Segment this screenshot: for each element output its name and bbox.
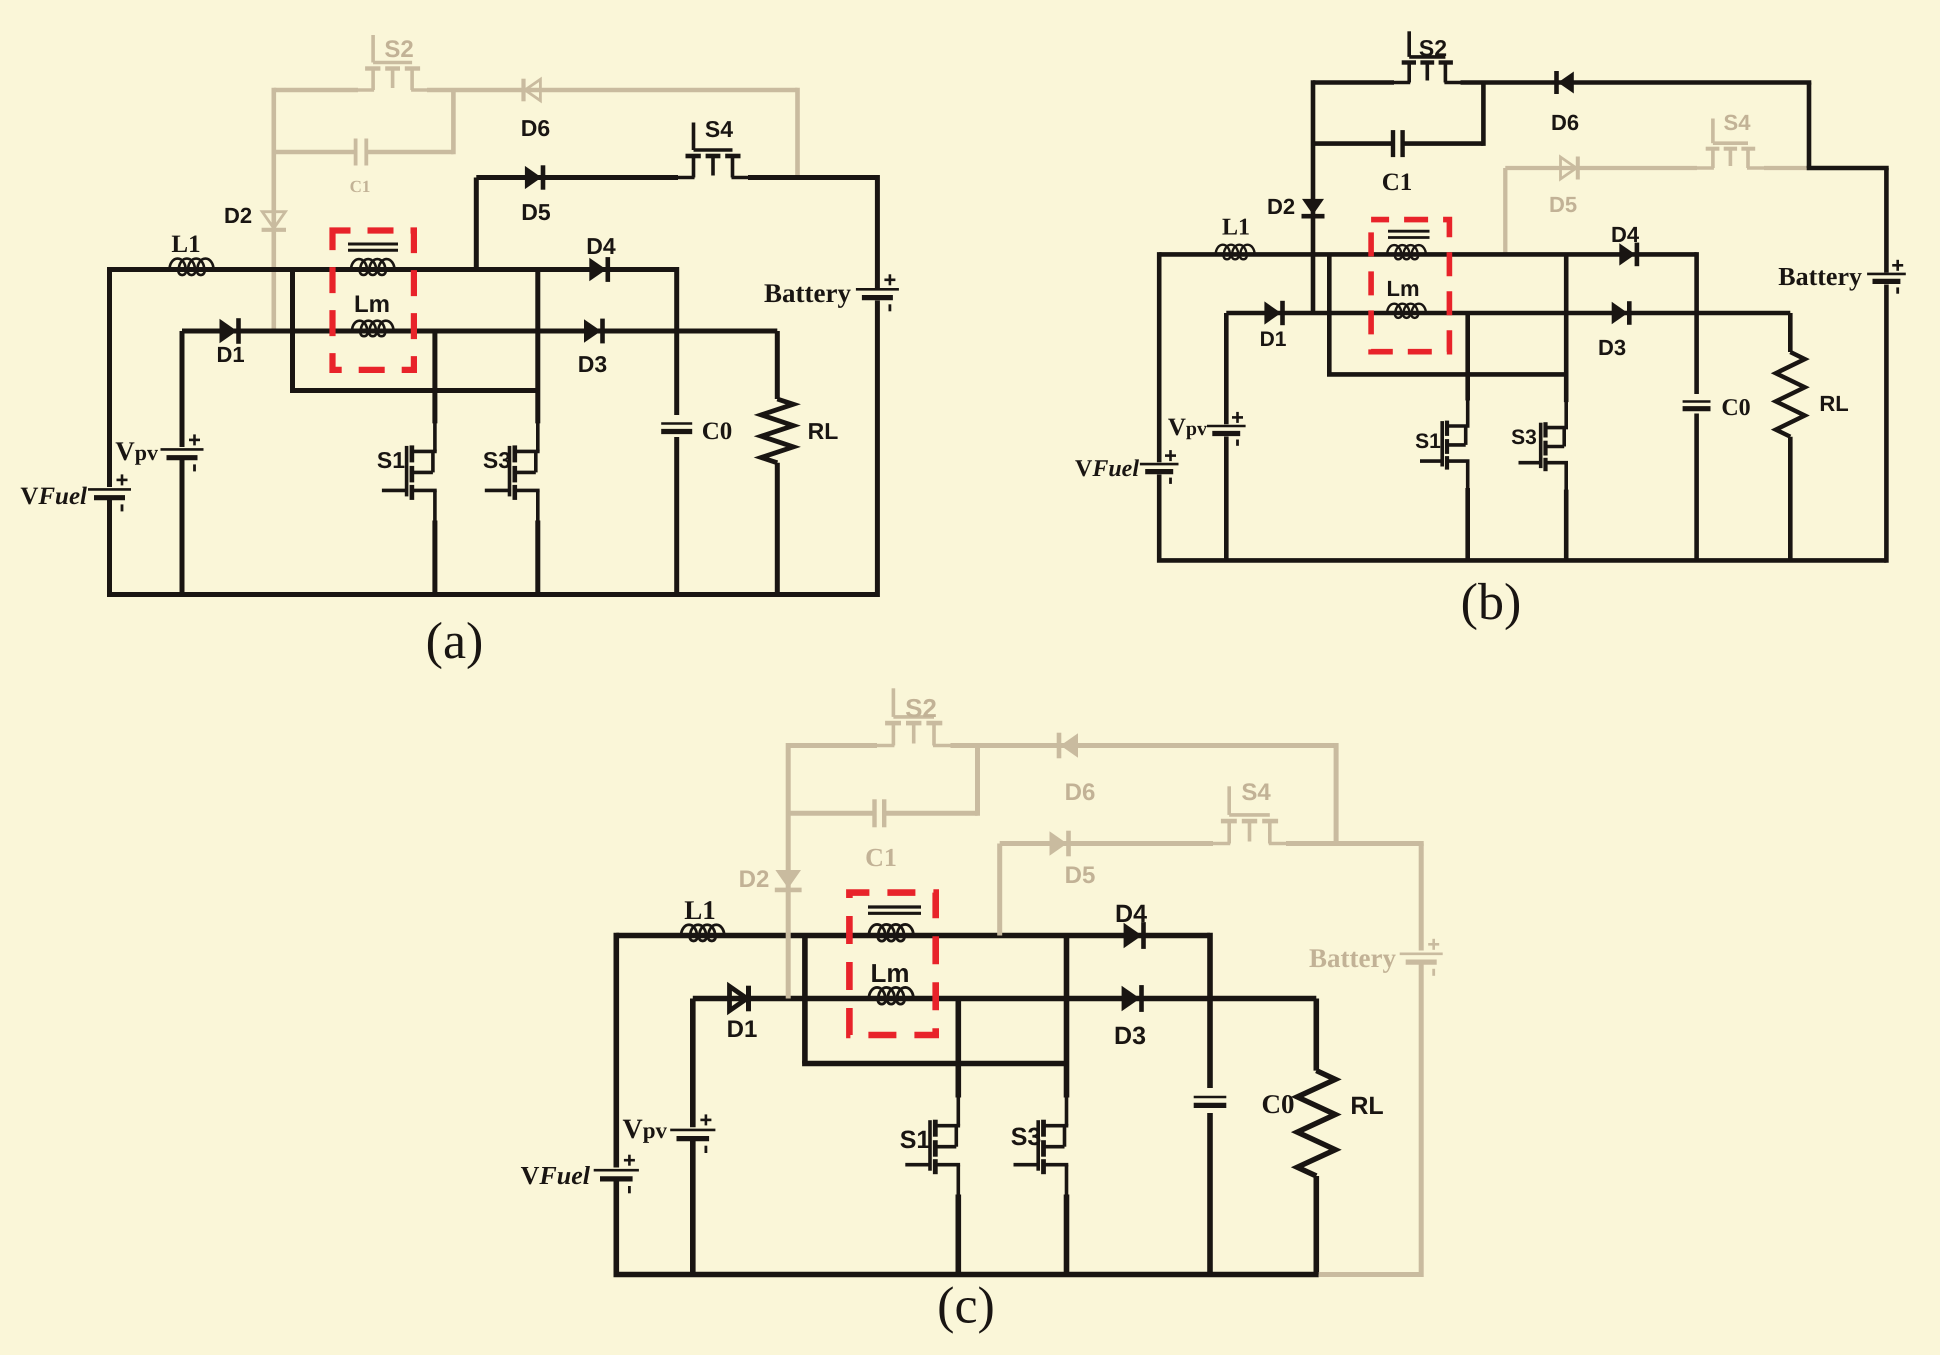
diode D1 (a)	[220, 319, 238, 343]
svg-text:D5: D5	[521, 199, 551, 225]
transistor S1 (a)	[410, 445, 415, 462]
transistor S2 (b)	[1407, 31, 1411, 57]
svg-text:C1: C1	[1382, 169, 1413, 196]
diode D1 (c)	[730, 986, 748, 1010]
diode D1 (b)	[1264, 301, 1281, 324]
transistor S3 (c)	[1041, 1120, 1046, 1137]
wire: S3 drain vertical (c)	[1064, 936, 1070, 1098]
inductor Lm secondary (c)	[869, 987, 913, 1004]
wire: gray left vertical through D2 (a)	[271, 88, 276, 331]
wire: S1 source vertical (c)	[955, 1195, 961, 1275]
svg-text:S2: S2	[905, 693, 937, 723]
svg-text:L1: L1	[1222, 215, 1250, 241]
transistor S4 (c)	[1227, 786, 1231, 815]
battery Battery (c)	[1400, 952, 1443, 955]
diode D6 (a)	[525, 79, 540, 100]
inductor Lm secondary (a)	[352, 321, 394, 337]
svg-text:C1: C1	[350, 177, 371, 196]
wire: S1 source vertical (b)	[1465, 488, 1470, 560]
svg-text:D1: D1	[216, 342, 244, 367]
wire: Vpv branch (b)	[1224, 313, 1229, 424]
transistor S3 (b)	[1543, 422, 1547, 437]
wire: top main rail with L1 (a)	[110, 267, 677, 272]
inductor Lm primary (c)	[869, 924, 913, 941]
diode D5 (a)	[525, 166, 542, 189]
svg-text:L1: L1	[171, 231, 200, 258]
wire: left rail lower + bottom rail (c)	[616, 1182, 1318, 1275]
wire: top main rail with L1 (b)	[1159, 252, 1696, 257]
wire: S3 drain vertical (b)	[1564, 254, 1569, 402]
wire: gray C1 right vertical (c)	[975, 746, 980, 816]
wire: gray C1 branch (c)	[788, 811, 874, 816]
svg-text:D5: D5	[1065, 862, 1096, 889]
svg-text:Lm: Lm	[871, 958, 910, 988]
svg-text:S3: S3	[1511, 426, 1537, 449]
svg-text:C0: C0	[1721, 395, 1750, 421]
battery Battery (b)	[1867, 273, 1906, 276]
svg-text:D4: D4	[1115, 900, 1147, 928]
wire: left rail upper (a)	[107, 267, 112, 487]
svg-text:S4: S4	[705, 116, 733, 142]
wire: S1 drain vertical (b)	[1465, 313, 1470, 401]
wire: gray right drop to S4 row (a)	[795, 88, 800, 178]
wire: C0 branch vertical (a)	[674, 267, 679, 415]
resistor RL (b)	[1776, 352, 1805, 437]
wire: Vpv branch lower (a)	[180, 460, 185, 595]
svg-text:C1: C1	[865, 843, 897, 872]
wire: C1 branch (b)	[1313, 141, 1393, 146]
wire: Lm loop bottom (a)	[290, 388, 538, 393]
wire: C0 branch vertical (b)	[1694, 252, 1699, 394]
svg-text:D6: D6	[1551, 110, 1579, 135]
svg-text:L1: L1	[684, 895, 716, 925]
wire: gray S2 top rail (a)	[274, 88, 358, 93]
inductor Lm secondary (b)	[1387, 304, 1426, 318]
diode D2 (b)	[1302, 199, 1324, 215]
wire: S3 source vertical (c)	[1064, 1195, 1070, 1275]
wire: Vpv branch (c)	[690, 999, 696, 1128]
svg-text:Vpv: Vpv	[622, 1114, 667, 1145]
capacitor C1 (a)	[354, 139, 358, 166]
battery Vpv (c)	[670, 1129, 715, 1132]
svg-text:D4: D4	[586, 233, 616, 259]
wire: Lm loop bottom (c)	[802, 1061, 1066, 1067]
svg-text:D1: D1	[727, 1016, 758, 1043]
capacitor C0 (a)	[661, 422, 692, 425]
battery Battery (a)	[856, 288, 899, 291]
wire: RL branch vertical (b)	[1788, 313, 1793, 352]
transistor S3 (a)	[512, 445, 517, 462]
svg-text:VFuel: VFuel	[20, 483, 87, 510]
wire: Lm loop left vertical (b)	[1327, 254, 1332, 374]
capacitor C1 (b)	[1391, 130, 1395, 157]
wire: S3 source vertical (b)	[1564, 490, 1569, 561]
wire: gray C1 branch (a)	[274, 150, 356, 155]
capacitor C1 (c)	[872, 799, 876, 827]
transformer core (c)	[868, 905, 921, 908]
svg-text:VFuel: VFuel	[1075, 456, 1139, 482]
svg-text:D5: D5	[1549, 192, 1577, 217]
svg-text:(c): (c)	[937, 1278, 995, 1335]
svg-text:S1: S1	[377, 447, 405, 473]
wire: battery branch vertical (b)	[1884, 168, 1889, 273]
battery Vpv (a)	[161, 448, 204, 451]
diode D5 (c)	[1050, 831, 1068, 855]
diode D2 (a)	[262, 212, 285, 229]
svg-text:Battery: Battery	[1778, 262, 1862, 291]
capacitor C0 (c)	[1194, 1096, 1227, 1099]
svg-text:RL: RL	[808, 418, 839, 444]
wire: D5/S4 row (a)	[476, 175, 678, 180]
battery VFuel (a)	[88, 488, 131, 491]
svg-text:S1: S1	[900, 1126, 931, 1154]
svg-text:(b): (b)	[1461, 574, 1522, 631]
wire: S3 drain vertical (a)	[535, 270, 540, 424]
transistor S2 (a)	[371, 35, 375, 63]
wire: gray S2 top rail (c)	[788, 743, 877, 748]
wire: S1 drain vertical (a)	[432, 331, 437, 423]
diode D4 (b)	[1619, 243, 1635, 265]
wire: D1/D3 row (c)	[693, 996, 1317, 1002]
svg-text:S3: S3	[483, 447, 511, 473]
wire: S3 source vertical (a)	[535, 521, 540, 595]
svg-text:D2: D2	[224, 203, 252, 228]
svg-text:D4: D4	[1611, 222, 1640, 247]
svg-text:Vpv: Vpv	[115, 436, 158, 466]
wire: C1 right vertical (b)	[1481, 83, 1486, 146]
wire: D2 branch vertical (b)	[1311, 80, 1316, 313]
diode D3 (b)	[1612, 302, 1628, 324]
svg-text:Battery: Battery	[764, 278, 851, 308]
diode D5 (b)	[1561, 157, 1577, 179]
inductor Lm primary (a)	[351, 259, 395, 275]
wire: top-right corner drop (b)	[1807, 83, 1812, 169]
wire: left rail upper (b)	[1157, 252, 1162, 462]
wire: S1 drain vertical (c)	[955, 999, 961, 1098]
wire: RL branch vertical (a)	[775, 331, 780, 399]
diode D2 (c)	[775, 870, 801, 888]
svg-text:C0: C0	[702, 418, 733, 445]
svg-text:Battery: Battery	[1309, 943, 1396, 973]
inductor L1 (b)	[1216, 245, 1255, 260]
wire: Lm loop left vertical (a)	[290, 270, 295, 391]
svg-text:Lm: Lm	[354, 291, 390, 318]
wire: top main rail with L1 (c)	[616, 933, 1210, 939]
transistor S1 (c)	[933, 1120, 938, 1137]
transistor S4 (a)	[692, 123, 696, 151]
capacitor C0 (b)	[1683, 400, 1711, 403]
wire: gray S4 row (c)	[1000, 841, 1213, 846]
svg-text:RL: RL	[1819, 391, 1848, 416]
wire: RL branch vertical (c)	[1314, 999, 1320, 1071]
svg-text:D6: D6	[521, 115, 550, 141]
diode D4 (a)	[589, 258, 606, 282]
wire: Vpv branch upper (a)	[180, 331, 185, 447]
transistor S2 (c)	[892, 688, 896, 717]
resistor RL (a)	[761, 399, 793, 463]
svg-text:D1: D1	[1260, 328, 1287, 351]
svg-text:VFuel: VFuel	[521, 1161, 591, 1190]
wire: D1/D3 row (b)	[1226, 311, 1790, 316]
inductor L1 (c)	[681, 925, 724, 941]
transistor S4 (b)	[1711, 119, 1715, 144]
svg-text:D6: D6	[1065, 779, 1096, 806]
diode D6 (c)	[1061, 733, 1079, 757]
svg-text:S4: S4	[1241, 779, 1271, 806]
wire: left rail lower + bottom rail (b)	[1159, 475, 1886, 561]
svg-text:S2: S2	[384, 36, 413, 63]
transformer core (a)	[348, 243, 398, 246]
wire: left rail upper (c)	[613, 933, 619, 1168]
svg-text:S4: S4	[1724, 110, 1752, 135]
wire: S4 row to battery corner (b)	[1807, 166, 1889, 171]
svg-text:Vpv: Vpv	[1168, 414, 1207, 441]
svg-text:D3: D3	[578, 351, 607, 377]
magnetizing branch red dashed box (b)	[1371, 220, 1449, 352]
svg-text:S2: S2	[1419, 35, 1447, 61]
magnetizing branch red dashed box (c)	[849, 893, 935, 1035]
diode D3 (c)	[1122, 986, 1140, 1012]
wire: Lm loop bottom (b)	[1327, 372, 1566, 377]
transistor S1 (b)	[1445, 421, 1449, 436]
diode D6 (b)	[1558, 72, 1574, 94]
wire: Lm loop left vertical (c)	[802, 936, 808, 1064]
battery VFuel (c)	[594, 1169, 639, 1172]
inductor Lm primary (b)	[1387, 245, 1426, 259]
svg-text:(a): (a)	[426, 613, 484, 670]
battery Vpv (b)	[1207, 425, 1246, 428]
svg-text:D3: D3	[1114, 1022, 1146, 1050]
svg-text:D2: D2	[1267, 194, 1295, 219]
svg-text:Lm: Lm	[1387, 276, 1420, 301]
wire: gray C1 right vertical (a)	[451, 90, 456, 154]
wire: battery branch vertical (a)	[875, 175, 880, 288]
wire: D1/D3 row (a)	[182, 329, 777, 334]
svg-text:D3: D3	[1598, 335, 1626, 360]
diode D3 (a)	[584, 319, 601, 343]
svg-text:D2: D2	[739, 866, 770, 893]
svg-text:S3: S3	[1011, 1123, 1042, 1151]
wire: gray D5 branch vertical (c)	[997, 844, 1002, 936]
wire: gray bottom return (c)	[1319, 1272, 1422, 1277]
svg-text:S1: S1	[1415, 430, 1441, 453]
wire: S1 source vertical (a)	[432, 521, 437, 595]
inductor L1 (a)	[170, 259, 214, 276]
magnetizing branch red dashed box (a)	[333, 231, 414, 370]
wire: left rail lower + bottom rail (a)	[110, 500, 878, 595]
resistor RL (c)	[1297, 1071, 1335, 1176]
wire: gray top-right corner drop (c)	[1334, 743, 1339, 844]
wire: gray D5/S4 row (b)	[1505, 166, 1697, 170]
wire: D5 branch vertical (a)	[474, 178, 479, 270]
wire: C0 branch vertical (c)	[1207, 933, 1213, 1088]
wire: S2/D6 top rail (b)	[1313, 80, 1394, 85]
svg-text:RL: RL	[1350, 1092, 1383, 1120]
diode D4 (c)	[1124, 923, 1142, 949]
wire: gray left vertical through D2 (c)	[786, 743, 791, 999]
svg-text:C0: C0	[1262, 1089, 1295, 1119]
wire: gray D5 branch vertical (b)	[1503, 168, 1507, 254]
wire: gray battery branch vertical (c)	[1419, 844, 1424, 951]
transformer core (b)	[1388, 230, 1430, 233]
battery VFuel (b)	[1140, 463, 1179, 466]
